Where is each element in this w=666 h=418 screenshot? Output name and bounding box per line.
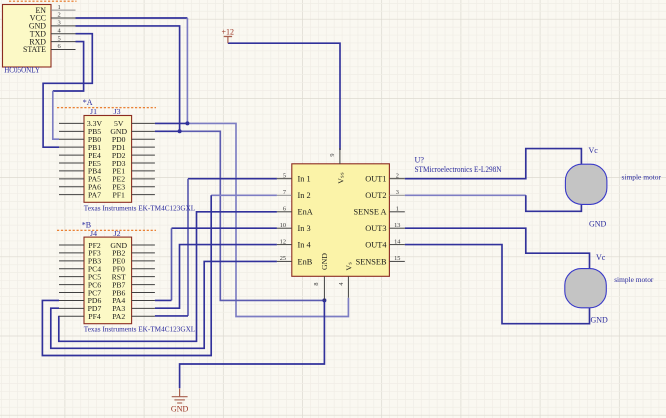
svg-text:PA7: PA7	[88, 190, 101, 199]
svg-text:8: 8	[313, 282, 320, 285]
svg-text:J2: J2	[114, 229, 121, 238]
svg-text:3: 3	[58, 20, 61, 27]
svg-text:1: 1	[396, 206, 399, 213]
svg-text:Vₛₛ: Vₛₛ	[337, 172, 346, 184]
svg-text:25: 25	[280, 255, 286, 262]
svg-text:12: 12	[280, 238, 286, 245]
svg-text:SENSE A: SENSE A	[354, 208, 387, 217]
svg-text:PF1: PF1	[112, 190, 125, 199]
svg-text:In 3: In 3	[298, 224, 311, 233]
svg-text:J1: J1	[90, 107, 97, 116]
svg-text:GND: GND	[320, 253, 329, 270]
svg-text:In 1: In 1	[298, 175, 311, 184]
svg-text:9: 9	[329, 153, 336, 156]
svg-text:7: 7	[283, 189, 286, 196]
svg-text:simple motor: simple motor	[614, 275, 654, 284]
svg-text:HC05ONLY: HC05ONLY	[4, 66, 40, 75]
svg-text:EnB: EnB	[298, 257, 313, 266]
svg-text:U?: U?	[415, 156, 425, 165]
svg-text:+12: +12	[221, 27, 234, 36]
svg-text:2: 2	[396, 173, 399, 180]
svg-text:SENSEB: SENSEB	[356, 257, 387, 266]
svg-text:14: 14	[394, 238, 401, 245]
svg-text:10: 10	[280, 222, 286, 229]
svg-text:15: 15	[394, 255, 400, 262]
svg-text:Texas Instruments EK-TM4C123GX: Texas Instruments EK-TM4C123GXL	[84, 324, 196, 333]
svg-text:*A: *A	[83, 98, 93, 107]
svg-text:Vₛ: Vₛ	[345, 262, 354, 271]
svg-text:GND: GND	[589, 219, 607, 228]
svg-text:J4: J4	[90, 229, 97, 238]
svg-text:GND: GND	[171, 404, 189, 413]
svg-text:5: 5	[283, 173, 286, 180]
svg-text:EnA: EnA	[298, 208, 313, 217]
svg-text:OUT4: OUT4	[365, 241, 387, 250]
svg-text:PA2: PA2	[112, 312, 125, 321]
svg-text:13: 13	[394, 222, 400, 229]
svg-text:STMicroelectronics E-L298N: STMicroelectronics E-L298N	[415, 165, 502, 174]
svg-text:Texas Instruments EK-TM4C123GX: Texas Instruments EK-TM4C123GXL	[84, 203, 196, 212]
svg-text:OUT1: OUT1	[365, 175, 386, 184]
svg-text:simple motor: simple motor	[622, 172, 662, 181]
svg-text:3: 3	[396, 189, 399, 196]
svg-text:PF4: PF4	[88, 312, 101, 321]
svg-text:STATE: STATE	[23, 45, 46, 54]
svg-text:5: 5	[58, 35, 61, 42]
svg-text:*B: *B	[82, 221, 91, 230]
svg-text:OUT3: OUT3	[365, 224, 386, 233]
svg-text:6: 6	[283, 206, 286, 213]
svg-text:J3: J3	[114, 107, 121, 116]
svg-text:In 2: In 2	[298, 191, 311, 200]
svg-text:GND: GND	[591, 315, 609, 324]
svg-text:1: 1	[58, 4, 61, 11]
svg-text:2: 2	[58, 12, 61, 19]
svg-text:In 4: In 4	[298, 241, 312, 250]
svg-text:Vc: Vc	[596, 253, 606, 262]
svg-text:OUT2: OUT2	[365, 191, 386, 200]
svg-text:Vc: Vc	[589, 146, 599, 155]
